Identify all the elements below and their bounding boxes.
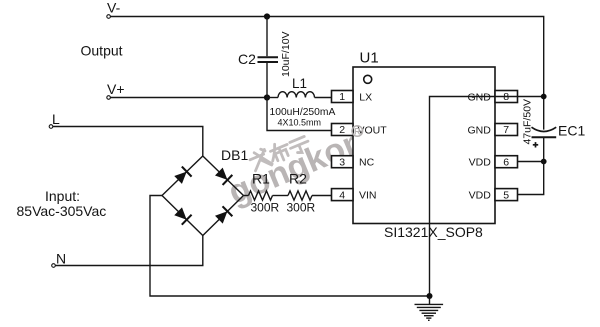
wire pin8 to rail	[495, 96, 544, 98]
svg-text:2: 2	[339, 124, 345, 136]
svg-text:10uF/10V: 10uF/10V	[280, 31, 292, 77]
svg-text:U1: U1	[360, 50, 379, 67]
svg-text:VIN: VIN	[359, 190, 377, 202]
wire GND internal	[430, 97, 496, 297]
pin 8 box	[495, 91, 518, 103]
svg-text:85Vac-305Vac: 85Vac-305Vac	[17, 203, 107, 219]
svg-text:VDD: VDD	[469, 190, 492, 202]
svg-text:5: 5	[503, 189, 509, 201]
node pin6 rail	[541, 159, 547, 165]
svg-text:3: 3	[339, 156, 345, 168]
svg-text:R2: R2	[289, 171, 307, 187]
svg-text:R: R	[354, 126, 361, 136]
wire pin5 to rail	[518, 138, 544, 195]
inductor L1	[267, 76, 335, 128]
diode D lower-right	[215, 206, 232, 223]
node ground	[427, 293, 433, 299]
wire bridge right to R1	[244, 195, 249, 197]
wire V- top rail	[111, 17, 544, 130]
svg-text:7: 7	[503, 124, 509, 136]
terminal V+	[107, 96, 111, 100]
svg-text:C2: C2	[238, 51, 256, 67]
ground	[415, 296, 444, 320]
svg-text:300R: 300R	[287, 201, 316, 215]
resistor R1	[249, 171, 280, 215]
pin1 indicator	[364, 75, 372, 83]
wire N to bridge bottom	[55, 236, 202, 266]
svg-text:R1: R1	[252, 171, 270, 187]
node L1/C2/VOUT	[264, 94, 270, 100]
svg-text:VDD: VDD	[469, 157, 492, 169]
bridge frame	[162, 156, 244, 236]
pin 5 box	[495, 189, 518, 201]
svg-text:L1: L1	[292, 76, 307, 91]
diode D lower-left	[174, 207, 191, 224]
wire L to bridge top	[53, 127, 203, 157]
svg-text:EC1: EC1	[558, 123, 585, 139]
capacitor EC1	[522, 99, 586, 148]
svg-text:SI1321X_SOP8: SI1321X_SOP8	[384, 224, 483, 240]
svg-text:Input:: Input:	[45, 188, 80, 204]
svg-text:NC: NC	[359, 157, 375, 169]
IC U1 body	[353, 67, 495, 224]
wire pin6 to rail	[518, 161, 544, 163]
pin 2 box	[332, 124, 354, 136]
diode D upper-right	[215, 168, 232, 185]
wire R2 to VIN	[312, 195, 332, 197]
wire bridge left to bottom rail	[150, 196, 430, 297]
wire V+	[111, 97, 268, 99]
terminal L	[49, 125, 53, 129]
watermark	[219, 104, 390, 212]
terminal V-	[107, 15, 111, 19]
watermark registered mark	[352, 126, 363, 137]
svg-text:300R: 300R	[251, 201, 280, 215]
svg-text:GND: GND	[467, 91, 491, 103]
svg-text:N: N	[56, 251, 66, 267]
wire VOUT	[267, 98, 332, 131]
svg-text:100uH/250mA: 100uH/250mA	[270, 107, 336, 118]
svg-text:4X10.5mm: 4X10.5mm	[278, 118, 322, 128]
pin 3 box	[332, 156, 354, 168]
pin 6 box	[495, 156, 518, 168]
capacitor C2	[238, 17, 292, 98]
pin 1 box	[332, 91, 354, 103]
svg-text:L: L	[52, 111, 60, 127]
terminal N	[52, 264, 56, 268]
svg-text:DB1: DB1	[221, 147, 248, 163]
svg-text:4: 4	[339, 189, 345, 201]
svg-text:V+: V+	[107, 81, 125, 97]
svg-text:6: 6	[503, 156, 509, 168]
resistor R2	[287, 171, 316, 215]
node pin8 rail	[541, 94, 547, 100]
svg-text:GND: GND	[467, 124, 491, 136]
node C2 top	[264, 13, 270, 19]
pin 7 box	[495, 124, 518, 136]
svg-text:V-: V-	[107, 0, 121, 16]
pin 4 box	[332, 189, 354, 201]
diode D upper-left	[174, 167, 191, 184]
svg-text:1: 1	[339, 91, 345, 103]
wire R1 to R2	[273, 195, 289, 197]
svg-text:47uF/50V: 47uF/50V	[522, 99, 534, 145]
svg-text:LX: LX	[359, 91, 372, 103]
svg-text:Output: Output	[81, 43, 123, 59]
